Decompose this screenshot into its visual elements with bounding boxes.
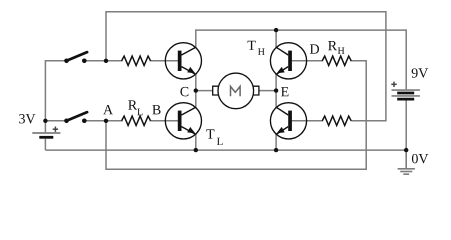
wire: bottom switch to node A and resistor RL — [84, 120, 122, 122]
wire: upper switch node to top rail, across top, down right side to lower-right base resistor — [106, 12, 386, 121]
junction: TL emitter at 0V — [194, 148, 198, 152]
label A — [103, 105, 113, 114]
resistor (lower-right base resistor) — [322, 116, 351, 125]
wire: lower-right transistor base to its resistor — [291, 120, 323, 122]
wire: node C to lower-left collector — [195, 91, 197, 108]
wire: lower-right emitter to 0V line — [275, 134, 277, 150]
label 0V — [412, 154, 428, 164]
junction: lower-right emitter at 0V — [274, 148, 278, 152]
transistor (lower-right NPN) — [270, 103, 306, 139]
wire: lower-left emitter to 0V line — [195, 134, 197, 150]
wire: node A drop, bottom run, up to RH right end — [106, 61, 366, 169]
wire: top switch feed — [45, 60, 66, 62]
label RL — [128, 100, 137, 109]
wire: 9V battery negative lead to 0V line — [405, 100, 407, 151]
plus sign of 3V battery — [53, 127, 58, 132]
wire: upper-right transistor collector to rail — [275, 29, 277, 47]
battery B2 9V — [392, 90, 420, 99]
junction: 9V negative at 0V / ground — [404, 148, 408, 152]
label C — [180, 87, 188, 96]
label D — [310, 44, 319, 53]
node C — [194, 88, 198, 92]
wire: 0V ground line — [45, 149, 406, 151]
label RH — [328, 41, 337, 50]
motor right brush — [253, 86, 259, 95]
resistor (upper-left base resistor) — [122, 56, 151, 65]
junction: upper-right collector at 9V rail — [274, 28, 278, 32]
label B — [152, 105, 160, 114]
wire: bottom switch feed — [45, 120, 66, 122]
node E — [274, 88, 278, 92]
ground symbol (0V) — [398, 150, 415, 174]
junction: left rail at lower switch — [43, 119, 47, 123]
wire: upper-left transistor collector to rail — [195, 29, 197, 47]
wire: node E to lower-right collector — [275, 91, 277, 108]
junction: upper switch / top rail node — [104, 59, 108, 63]
resistor RH — [322, 56, 351, 65]
wire: upper-right emitter to node E — [275, 74, 277, 91]
label TL — [206, 129, 214, 138]
plus sign of 9V battery — [391, 82, 396, 87]
wire: 9V battery positive lead — [405, 29, 407, 89]
label 9V — [412, 68, 429, 77]
wire: top switch to node and base resistor — [84, 60, 122, 62]
wire: top base resistor to upper-left transistor base — [150, 60, 179, 62]
switch S1 (upper) — [64, 52, 87, 63]
transistor (upper-left NPN) — [165, 43, 201, 79]
label TH — [248, 41, 256, 50]
switch S2 (lower) — [64, 112, 87, 123]
label 3V — [19, 114, 35, 123]
wire: motor right brush to node E — [259, 90, 276, 92]
resistor RL — [122, 116, 151, 125]
wire: 9V positive rail (collector rail) — [196, 29, 406, 31]
wire: RL to TL base — [150, 120, 179, 122]
wire: node C to motor left brush — [196, 90, 213, 92]
motor left brush — [213, 86, 219, 95]
transistor TH — [270, 43, 306, 79]
wire: T_H base to resistor RH — [291, 60, 323, 62]
wire: left rail between switches and 3V battery — [44, 60, 46, 121]
node A — [104, 119, 108, 123]
label E — [281, 87, 288, 96]
battery B1 3V — [32, 121, 60, 150]
motor M — [218, 73, 254, 109]
wire: upper-left emitter to node C — [195, 74, 197, 91]
transistor TL — [165, 103, 201, 139]
